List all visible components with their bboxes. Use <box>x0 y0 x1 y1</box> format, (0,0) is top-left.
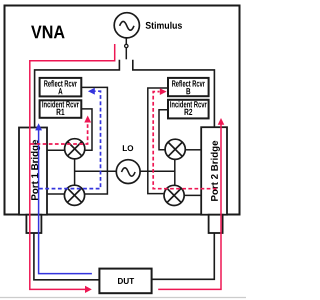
Port 1 connector <box>26 215 41 233</box>
wire mixer LR to bridge2 <box>185 194 201 196</box>
red dashed arrow into B <box>160 88 167 95</box>
LO source circle <box>116 160 140 184</box>
wire mixer UR to bridge2 <box>186 149 202 151</box>
mixer LR <box>164 185 184 205</box>
receiver box B <box>168 78 209 96</box>
switch throw 2 wire to Port 2 bridge <box>133 60 215 127</box>
wire between left mixers <box>74 159 76 185</box>
label LO <box>123 145 133 151</box>
label R1 <box>57 109 65 115</box>
wire port1 to DUT <box>34 233 100 280</box>
VNA enclosure box <box>5 6 240 215</box>
label Incident Rcvr <box>42 101 79 108</box>
label Reflect Rcvr <box>44 80 77 87</box>
wire stimulus to node <box>125 37 127 44</box>
blue dashed arrow into A <box>88 88 95 95</box>
label Port 2 Bridge <box>211 141 220 201</box>
LO sine symbol <box>122 168 136 176</box>
mixer UR <box>165 139 185 159</box>
mixer UL <box>65 139 85 159</box>
label Reflect Rcvr <box>172 80 205 87</box>
Port 2 Bridge box <box>201 127 227 215</box>
receiver box A <box>40 78 82 97</box>
wire between right mixers <box>174 159 176 185</box>
red dashed transmitted path right <box>153 92 216 189</box>
node switch pole <box>125 44 128 47</box>
label B <box>186 88 190 94</box>
red arrow into DUT <box>85 286 92 293</box>
Port 1 Bridge box <box>19 128 47 215</box>
switch throw 1 wire to Port 1 bridge <box>35 60 120 128</box>
stimulus sine symbol <box>120 21 134 30</box>
label R2 <box>185 109 193 115</box>
red dashed reference path left <box>31 122 88 145</box>
wire node to switch arm <box>125 48 127 59</box>
label Stimulus <box>146 22 182 29</box>
wire R1 to mixer UL <box>81 109 92 150</box>
wire bridge1 to mixer UL <box>47 149 64 151</box>
label A <box>58 88 62 94</box>
receiver box R2 <box>168 100 209 119</box>
DUT box <box>99 269 151 294</box>
red arrow up to switch <box>218 118 225 125</box>
receiver box R1 <box>40 100 82 118</box>
wire bridge1 to mixer LL <box>47 193 64 195</box>
blue reflected path left <box>39 130 92 274</box>
label Incident Rcvr <box>170 101 207 108</box>
wire LO to right mixers <box>139 170 174 172</box>
label DUT <box>118 278 134 284</box>
wire R2 to mixer UR <box>159 110 168 150</box>
wire DUT to port2 <box>152 233 215 279</box>
mixer LL <box>64 185 84 205</box>
red transmitted path right <box>158 124 221 289</box>
red stimulus path left <box>30 44 115 289</box>
page separator line <box>0 297 246 299</box>
red dashed arrow up to R1 <box>84 116 91 123</box>
label VNA <box>31 26 65 39</box>
blue arrow up to receiver <box>35 123 42 130</box>
stimulus source circle <box>114 13 139 38</box>
blue dashed reflected path left <box>39 91 101 188</box>
wire LO to left mixers <box>75 170 117 172</box>
wire A to mixer LL <box>81 87 107 194</box>
label Port 1 Bridge <box>31 140 40 200</box>
Port 2 connector <box>209 215 223 233</box>
wire B to mixer LR <box>148 88 168 194</box>
